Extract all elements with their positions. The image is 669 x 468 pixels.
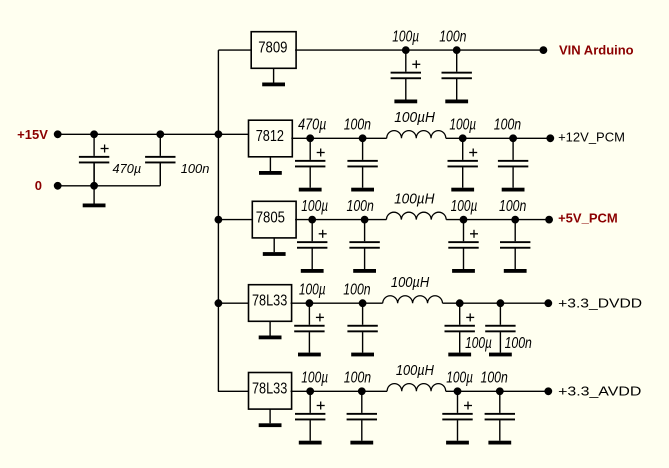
- wire C1 to 0 rail: [93, 163, 95, 186]
- wire 0 rail: [58, 185, 161, 187]
- svg-text:470µ: 470µ: [113, 161, 142, 176]
- svg-text:100µ: 100µ: [392, 28, 419, 45]
- node C7: [459, 134, 467, 142]
- svg-text:100µ: 100µ: [301, 370, 328, 387]
- svg-text:+5V_PCM: +5V_PCM: [558, 211, 618, 226]
- voltage regulator U5 78L33: [249, 373, 292, 410]
- svg-text:100n: 100n: [505, 335, 532, 352]
- ground of C9 100µ: [301, 269, 324, 273]
- ground of C16 100n: [489, 353, 512, 357]
- wire L2 to +5V_PCM terminal: [446, 219, 549, 221]
- ground of C6 100n: [351, 188, 374, 192]
- ground pin of U5: [259, 409, 282, 427]
- ground of C17 100µ: [299, 441, 322, 445]
- wire U1 output: [295, 49, 543, 51]
- inductor L3 100µH: [383, 296, 443, 303]
- svg-text:100n: 100n: [344, 370, 371, 387]
- node bus row3: [215, 216, 223, 224]
- terminal 0: [54, 182, 62, 190]
- inductor L2 100µH: [386, 212, 446, 219]
- capacitor C17 100µ: [295, 391, 325, 440]
- ground of C5 470µ: [299, 188, 322, 192]
- ground of C14 100n: [351, 353, 374, 357]
- node C20: [496, 387, 504, 395]
- wire main vertical bus: [217, 50, 219, 391]
- ground pin of U4: [259, 321, 282, 339]
- wire U5 output (left of L4): [291, 390, 388, 392]
- node C4: [453, 46, 461, 54]
- node C15: [456, 299, 464, 307]
- ground of 0 rail: [83, 186, 106, 208]
- capacitor C11 100µ: [448, 220, 478, 269]
- ground pin of U1: [262, 68, 285, 86]
- node C6: [359, 134, 367, 142]
- node C3: [402, 46, 410, 54]
- ground of C7 100µ: [451, 188, 474, 192]
- svg-text:7812: 7812: [256, 128, 284, 145]
- ground of C4 100n: [445, 100, 468, 104]
- svg-text:+3.3_AVDD: +3.3_AVDD: [558, 384, 641, 399]
- capacitor C1 470µ (input): [79, 134, 109, 183]
- capacitor C2 100n (input): [145, 134, 175, 183]
- wire U2 output (left of L1): [291, 137, 386, 139]
- svg-text:+12V_PCM: +12V_PCM: [558, 129, 625, 144]
- capacitor C12 100n: [500, 220, 530, 269]
- node bus/+15V junction: [215, 130, 223, 138]
- node C16: [497, 299, 505, 307]
- ground of C20 100n: [488, 441, 511, 445]
- wire bus to U1 input: [218, 49, 251, 51]
- svg-text:100n: 100n: [344, 117, 371, 134]
- svg-text:7809: 7809: [258, 40, 287, 57]
- terminal +12V_PCM: [546, 134, 554, 142]
- node C19: [454, 387, 462, 395]
- svg-text:100µH: 100µH: [391, 275, 430, 291]
- svg-text:100n: 100n: [481, 370, 508, 387]
- ground of C8 100n: [502, 188, 525, 192]
- node C18: [358, 387, 366, 395]
- node C17: [306, 387, 314, 395]
- wire U3 output (left of L2): [295, 219, 386, 221]
- wire U4 output (left of L3): [291, 302, 383, 304]
- inductor L1 100µH: [387, 131, 446, 139]
- capacitor C19 100µ: [442, 391, 472, 440]
- svg-text:100µ: 100µ: [446, 370, 473, 387]
- node C8: [509, 134, 517, 142]
- node 0/ground junction: [90, 182, 98, 190]
- terminal +3.3_DVDD: [544, 299, 552, 307]
- svg-text:100n: 100n: [181, 161, 210, 176]
- svg-text:0: 0: [35, 178, 42, 193]
- ground of C19 100µ: [446, 441, 469, 445]
- capacitor C9 100µ: [297, 220, 327, 269]
- wire +15V rail: [58, 133, 249, 135]
- ground of C11 100µ: [452, 269, 475, 273]
- node C12: [511, 216, 519, 224]
- svg-text:100µH: 100µH: [396, 363, 434, 379]
- capacitor C13 100µ: [294, 303, 324, 352]
- wire L3 to +3.3_DVDD terminal: [443, 302, 549, 304]
- svg-text:7805: 7805: [256, 209, 285, 226]
- svg-text:100µ: 100µ: [465, 335, 492, 352]
- node input C470: [90, 130, 98, 138]
- node C10: [361, 216, 369, 224]
- node C9: [308, 216, 316, 224]
- capacitor C3 100µ: [391, 50, 421, 99]
- capacitor C16 100n: [485, 303, 515, 352]
- ground of C13 100µ: [298, 353, 321, 357]
- voltage regulator U3 7805: [252, 201, 296, 238]
- wire L4 to +3.3_AVDD terminal: [446, 390, 549, 392]
- capacitor C10 100n: [349, 220, 379, 269]
- svg-text:+3.3_DVDD: +3.3_DVDD: [558, 296, 642, 311]
- ground of C10 100n: [353, 269, 376, 273]
- svg-text:100µ: 100µ: [449, 117, 476, 134]
- node C13: [306, 299, 314, 307]
- inductor L4 100µH: [387, 384, 446, 392]
- svg-text:100µH: 100µH: [394, 191, 435, 207]
- svg-text:100n: 100n: [494, 117, 521, 134]
- wire C2 to 0 rail: [159, 163, 161, 186]
- node input C100n: [156, 130, 164, 138]
- voltage regulator U4 78L33: [249, 285, 292, 322]
- ground of C18 100n: [350, 441, 373, 445]
- svg-text:78L33: 78L33: [252, 381, 287, 398]
- terminal +5V_PCM: [545, 216, 553, 224]
- voltage regulator U2 7812: [249, 120, 293, 157]
- capacitor C5 470µ: [295, 138, 325, 187]
- wire L1 to +12V_PCM terminal: [446, 137, 551, 139]
- svg-text:100µH: 100µH: [394, 110, 435, 126]
- svg-text:100µ: 100µ: [301, 198, 328, 215]
- svg-text:+15V: +15V: [17, 127, 48, 142]
- voltage regulator U1 7809: [251, 32, 296, 69]
- terminal +15V: [54, 130, 62, 138]
- capacitor C14 100n: [347, 303, 377, 352]
- svg-text:100n: 100n: [439, 28, 466, 45]
- svg-text:100µ: 100µ: [451, 198, 478, 215]
- node C11: [460, 216, 468, 224]
- node C14: [359, 299, 367, 307]
- capacitor C4 100n: [442, 50, 472, 99]
- capacitor C18 100n: [347, 391, 377, 440]
- svg-text:100n: 100n: [347, 198, 374, 215]
- terminal VIN Arduino: [540, 46, 548, 54]
- wire bus to U3 input: [218, 219, 252, 221]
- svg-text:100µ: 100µ: [299, 281, 326, 298]
- node bus row4: [215, 299, 223, 307]
- ground pin of U2: [259, 157, 282, 175]
- svg-text:470µ: 470µ: [298, 117, 326, 134]
- ground of C15 100µ: [448, 353, 471, 357]
- ground pin of U3: [263, 238, 286, 256]
- svg-text:78L33: 78L33: [252, 293, 287, 310]
- svg-text:100n: 100n: [499, 198, 526, 215]
- wire bus to U5 input: [218, 390, 249, 392]
- capacitor C20 100n: [485, 391, 515, 440]
- wire bus to U4 input: [218, 302, 248, 304]
- terminal +3.3_AVDD: [544, 387, 552, 395]
- ground of C3 100µ: [394, 100, 417, 104]
- svg-text:VIN Arduino: VIN Arduino: [559, 43, 634, 58]
- capacitor C7 100µ: [448, 138, 478, 187]
- capacitor C6 100n: [347, 138, 377, 187]
- capacitor C8 100n: [498, 138, 528, 187]
- svg-text:100n: 100n: [343, 281, 370, 298]
- capacitor C15 100µ: [445, 303, 475, 352]
- node C5: [306, 134, 314, 142]
- ground of C12 100n: [504, 269, 527, 273]
